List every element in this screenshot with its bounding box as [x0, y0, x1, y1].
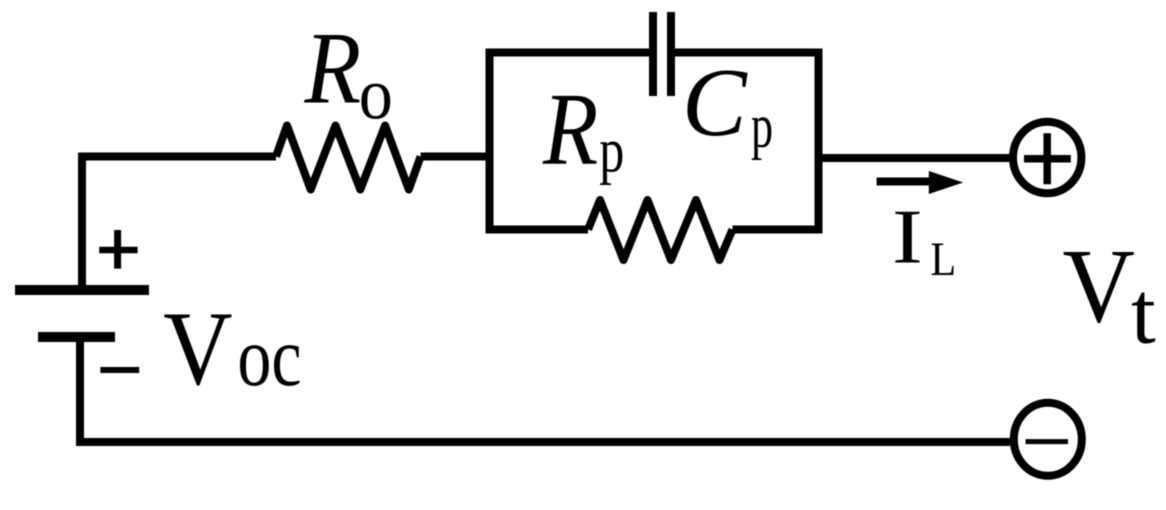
parallel box left edge [486, 49, 494, 234]
negative terminal minus sign [1026, 439, 1069, 444]
svg-text:t: t [1131, 265, 1156, 363]
current arrow IL [877, 171, 964, 194]
wire battery positive to resistor Ro (corner) [82, 157, 276, 291]
wire battery negative to negative terminal (corner) [80, 337, 1010, 442]
parallel box bottom edge left of Rp [486, 226, 589, 234]
capacitor Cp plate 1 [649, 12, 657, 96]
svg-text:p: p [751, 93, 773, 161]
positive terminal circle [1013, 122, 1081, 194]
wire box to positive terminal [819, 154, 1011, 162]
label Voc [163, 290, 301, 407]
svg-text:I: I [892, 194, 923, 280]
battery plus sign [99, 230, 137, 269]
label Rp [542, 72, 624, 187]
svg-text:L: L [930, 233, 956, 286]
svg-text:R: R [304, 11, 362, 125]
capacitor Cp plate 2 [667, 12, 675, 96]
parallel box top edge right of capacitor [671, 49, 823, 57]
label Ro [304, 11, 393, 134]
label Cp [682, 49, 773, 161]
svg-text:p: p [599, 115, 624, 186]
parallel box bottom edge right of Rp [733, 226, 823, 234]
resistor Ro zigzag [276, 126, 421, 190]
svg-text:V: V [163, 290, 232, 407]
parallel box top edge left of capacitor [486, 49, 654, 57]
wire Ro to parallel box [421, 153, 490, 161]
battery negative plate (short) [38, 332, 115, 342]
resistor Rp zigzag [588, 200, 733, 260]
parallel box right edge [815, 49, 823, 234]
svg-text:R: R [542, 72, 598, 187]
svg-text:oc: oc [237, 310, 301, 404]
svg-text:o: o [359, 54, 393, 135]
label IL [892, 194, 956, 287]
positive terminal plus sign [1024, 133, 1071, 184]
negative terminal circle [1014, 403, 1082, 476]
svg-text:V: V [1063, 228, 1135, 345]
battery minus sign [100, 367, 139, 373]
label Vt [1063, 228, 1157, 363]
battery positive plate (long) [15, 285, 149, 295]
svg-text:C: C [682, 49, 748, 156]
